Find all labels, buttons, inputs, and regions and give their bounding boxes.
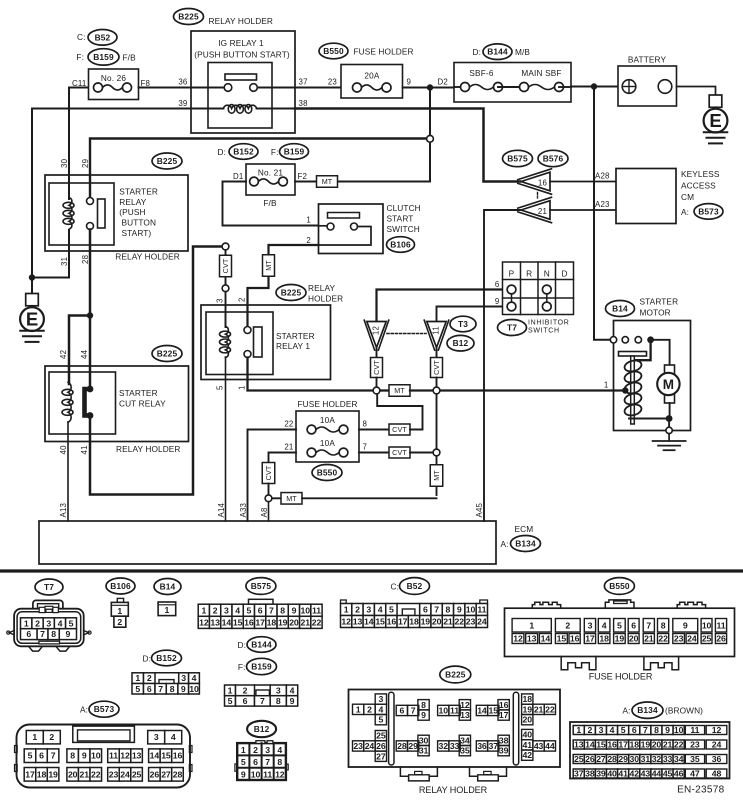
wire MT chain A8 to start wire [272, 394, 443, 504]
svg-text:6: 6 [243, 696, 248, 706]
svg-text:9: 9 [495, 297, 500, 306]
svg-text:33: 33 [450, 741, 460, 751]
svg-text:STARTER: STARTER [276, 331, 315, 341]
svg-text:CLUTCH: CLUTCH [387, 203, 421, 213]
svg-text:35: 35 [690, 754, 700, 764]
svg-text:18: 18 [630, 740, 640, 750]
svg-text:22: 22 [454, 617, 464, 627]
svg-text:1: 1 [529, 621, 534, 631]
svg-text:1: 1 [356, 704, 361, 714]
svg-text:42: 42 [523, 750, 533, 760]
svg-text:5: 5 [378, 715, 383, 725]
svg-text:A14: A14 [217, 502, 226, 517]
svg-text:24: 24 [477, 617, 487, 627]
svg-text:5: 5 [241, 757, 246, 767]
svg-text:9: 9 [181, 684, 186, 694]
svg-text:24: 24 [687, 634, 697, 644]
svg-text:2: 2 [49, 732, 54, 742]
svg-text:26: 26 [150, 769, 160, 779]
label FUSE HOLDER (10A fuses) [297, 399, 357, 409]
svg-text:34: 34 [674, 754, 684, 764]
svg-text:E: E [709, 110, 721, 131]
joint connector 21 [518, 197, 552, 222]
svg-text:5: 5 [69, 618, 74, 628]
svg-text:2: 2 [587, 725, 592, 735]
svg-text:19: 19 [278, 617, 288, 627]
svg-text:D:: D: [238, 640, 247, 650]
wire inhibitor 6 to joint 12 [377, 290, 508, 322]
connector B144/B159 pinout [225, 685, 298, 706]
connector B225 relay holder pinout [349, 690, 561, 781]
svg-text:B159: B159 [93, 52, 114, 62]
svg-text:A:: A: [80, 705, 88, 715]
svg-text:14: 14 [477, 706, 487, 716]
connector label B14 [606, 301, 635, 317]
svg-text:No. 26: No. 26 [101, 74, 127, 83]
connector label B144 [483, 44, 512, 60]
connector label B134 [632, 702, 663, 718]
connector label B225 [440, 666, 471, 683]
svg-text:20A: 20A [364, 72, 380, 81]
svg-text:35: 35 [460, 746, 470, 756]
svg-text:FUSE HOLDER: FUSE HOLDER [297, 399, 357, 409]
svg-text:9: 9 [407, 78, 412, 87]
svg-text:2: 2 [213, 605, 218, 615]
svg-text:29: 29 [81, 158, 90, 168]
svg-text:12: 12 [371, 326, 380, 335]
svg-text:11: 11 [263, 770, 272, 780]
svg-text:2: 2 [238, 297, 247, 302]
svg-text:10: 10 [300, 605, 310, 615]
label C: B52 (pinout) [391, 582, 400, 592]
svg-text:6: 6 [147, 684, 152, 694]
svg-text:B550: B550 [609, 581, 630, 591]
svg-text:FUSE HOLDER: FUSE HOLDER [589, 672, 653, 682]
svg-text:6: 6 [253, 757, 258, 767]
svg-text:KEYLESS: KEYLESS [681, 169, 720, 179]
svg-text:8: 8 [70, 751, 75, 761]
svg-text:22: 22 [284, 420, 293, 429]
label A: B134 (BROWN) [622, 705, 630, 715]
svg-text:B575: B575 [251, 581, 272, 591]
connector label B152 [229, 144, 258, 160]
svg-text:17: 17 [499, 710, 509, 720]
svg-text:23: 23 [674, 634, 684, 644]
wire 40 to ECM A13 [59, 422, 68, 521]
label RELAY HOLDER (starter relay 1) [308, 283, 343, 303]
connector label B225 [152, 153, 182, 169]
svg-text:B106: B106 [110, 581, 131, 591]
svg-text:9: 9 [241, 770, 246, 780]
svg-text:16: 16 [244, 617, 254, 627]
svg-text:2: 2 [355, 605, 360, 615]
svg-text:MOTOR: MOTOR [640, 308, 671, 318]
svg-text:8: 8 [654, 725, 659, 735]
separator line [0, 569, 743, 572]
wire 38 to joint 16 [295, 109, 520, 182]
svg-text:1: 1 [238, 385, 247, 390]
svg-text:D: D [561, 269, 567, 279]
svg-text:12: 12 [460, 700, 470, 710]
svg-text:31: 31 [60, 257, 69, 266]
label FUSE HOLDER (pinout) [589, 672, 653, 682]
svg-text:16: 16 [499, 700, 509, 710]
svg-text:10: 10 [466, 605, 476, 615]
svg-text:7: 7 [40, 629, 45, 639]
svg-text:B575: B575 [507, 154, 528, 164]
svg-text:20: 20 [629, 634, 639, 644]
connector label B52 [88, 30, 117, 46]
svg-text:10: 10 [674, 725, 684, 735]
svg-text:6: 6 [399, 706, 404, 716]
svg-text:3: 3 [181, 673, 186, 683]
svg-text:6: 6 [495, 280, 500, 289]
splice CVT below joint 11 [431, 348, 443, 394]
svg-text:19: 19 [615, 634, 625, 644]
svg-text:19: 19 [421, 617, 431, 627]
svg-text:A:: A: [681, 207, 689, 217]
svg-text:1: 1 [241, 745, 246, 755]
svg-text:MT: MT [394, 386, 405, 395]
svg-text:A33: A33 [239, 502, 248, 517]
svg-text:MT: MT [322, 177, 333, 186]
switch inhibitor switch T7 [503, 262, 574, 315]
label D: B144 M/B [473, 47, 482, 57]
svg-text:8: 8 [421, 700, 426, 710]
svg-text:CVT: CVT [392, 448, 407, 457]
svg-text:3: 3 [154, 732, 159, 742]
svg-text:10: 10 [702, 621, 712, 631]
svg-text:1: 1 [32, 732, 37, 742]
svg-text:1: 1 [24, 618, 29, 628]
svg-text:28: 28 [607, 754, 617, 764]
svg-text:5: 5 [228, 696, 233, 706]
svg-text:19: 19 [641, 740, 651, 750]
joint connector 12 [364, 320, 389, 350]
svg-text:1: 1 [228, 685, 233, 695]
svg-text:MAIN SBF: MAIN SBF [521, 69, 561, 78]
svg-text:23: 23 [690, 740, 700, 750]
svg-text:15: 15 [233, 617, 243, 627]
svg-text:22: 22 [674, 740, 684, 750]
dotted link 12-11 [387, 333, 426, 335]
svg-text:RELAY: RELAY [119, 197, 146, 207]
label INHIBITOR SWITCH [528, 320, 570, 335]
svg-text:1: 1 [135, 673, 140, 683]
connector B573 pinout [15, 725, 193, 788]
pin labels starter relay PBS [60, 158, 90, 266]
svg-text:EN-23578: EN-23578 [677, 785, 725, 796]
svg-text:17: 17 [585, 634, 595, 644]
connector label B225 [276, 285, 306, 301]
svg-text:7: 7 [158, 684, 163, 694]
svg-text:31: 31 [641, 754, 651, 764]
connector label B225 [152, 346, 182, 362]
wire battery to ground E [677, 87, 716, 96]
svg-text:D:: D: [473, 47, 482, 57]
svg-text:7: 7 [260, 696, 265, 706]
svg-text:B576: B576 [543, 154, 564, 164]
connector label B144 [247, 637, 276, 653]
svg-text:29: 29 [618, 754, 628, 764]
svg-text:41: 41 [80, 445, 89, 454]
connector label B152 [152, 650, 182, 666]
svg-text:B152: B152 [233, 147, 254, 157]
svg-text:RELAY HOLDER: RELAY HOLDER [209, 16, 274, 26]
svg-text:4: 4 [58, 618, 63, 628]
svg-text:47: 47 [690, 769, 700, 779]
svg-text:F/B: F/B [263, 198, 277, 208]
svg-text:14: 14 [364, 617, 374, 627]
svg-text:RELAY HOLDER: RELAY HOLDER [419, 785, 488, 795]
svg-text:20: 20 [432, 617, 442, 627]
svg-text:15: 15 [489, 706, 499, 716]
svg-text:43: 43 [534, 741, 544, 751]
svg-text:48: 48 [712, 769, 722, 779]
svg-text:5: 5 [135, 684, 140, 694]
svg-text:16: 16 [607, 740, 617, 750]
wire D1 to clutch start switch [223, 182, 319, 226]
node battery junction [591, 83, 597, 89]
svg-text:21: 21 [538, 207, 547, 216]
svg-text:38: 38 [299, 99, 309, 108]
svg-text:5: 5 [247, 605, 252, 615]
connector B152 pinout [132, 673, 199, 694]
wire D2 branch down to fuse No.21 feed [429, 88, 431, 182]
svg-text:1: 1 [344, 605, 349, 615]
label STARTER MOTOR [640, 297, 679, 318]
svg-text:3: 3 [588, 621, 593, 631]
svg-text:1: 1 [604, 381, 609, 390]
svg-text:CVT: CVT [264, 465, 273, 480]
splice CVT on pin3 feed [220, 243, 232, 327]
svg-text:5: 5 [621, 725, 626, 735]
svg-text:ACCESS: ACCESS [681, 181, 716, 191]
svg-text:9: 9 [82, 751, 87, 761]
battery [618, 55, 677, 107]
svg-text:6: 6 [258, 605, 263, 615]
svg-text:12: 12 [199, 617, 209, 627]
svg-text:11: 11 [690, 725, 699, 735]
label F: B159 F/B [76, 52, 84, 62]
svg-text:3: 3 [366, 605, 371, 615]
svg-text:No. 21: No. 21 [258, 169, 284, 178]
svg-text:21: 21 [79, 769, 89, 779]
joint connector 16 [518, 169, 552, 194]
svg-text:SWITCH: SWITCH [387, 224, 420, 234]
svg-text:20: 20 [523, 715, 533, 725]
svg-text:14: 14 [222, 617, 232, 627]
svg-text:CVT: CVT [392, 425, 407, 434]
svg-text:D2: D2 [438, 78, 449, 87]
svg-text:26: 26 [585, 754, 595, 764]
svg-text:CVT: CVT [372, 360, 381, 375]
svg-text:23: 23 [466, 617, 476, 627]
wire A28 [550, 172, 616, 182]
svg-text:14: 14 [541, 634, 551, 644]
svg-text:2: 2 [253, 745, 258, 755]
svg-text:ECM: ECM [515, 524, 534, 534]
wire 41 to starter relay 1 pin 3 [90, 247, 222, 495]
svg-text:2: 2 [243, 685, 248, 695]
wire 39 to ground node [32, 109, 191, 294]
svg-text:4: 4 [602, 621, 607, 631]
svg-text:CUT RELAY: CUT RELAY [119, 398, 166, 408]
svg-text:3: 3 [216, 298, 225, 303]
label RELAY HOLDER (pinout) [419, 785, 488, 795]
connector label B14 [154, 579, 181, 595]
svg-text:25: 25 [574, 754, 584, 764]
svg-text:E: E [26, 309, 38, 330]
svg-text:14: 14 [150, 751, 160, 761]
svg-text:18: 18 [599, 634, 609, 644]
label D: B152 [218, 147, 227, 157]
svg-text:22: 22 [91, 769, 101, 779]
svg-text:3: 3 [46, 618, 51, 628]
relay IG RELAY 1 [191, 31, 295, 133]
connector label B573 [694, 204, 723, 220]
svg-text:6: 6 [39, 751, 44, 761]
svg-text:D:: D: [218, 147, 227, 157]
wire 36 [139, 78, 192, 88]
node C11 label [72, 79, 87, 88]
fuses 10A (B550) [296, 411, 359, 462]
svg-text:B106: B106 [390, 240, 411, 250]
svg-text:34: 34 [460, 735, 470, 745]
svg-text:28: 28 [397, 741, 407, 751]
svg-text:F:: F: [238, 662, 246, 672]
label EN-23578 [677, 785, 725, 796]
svg-text:19: 19 [48, 769, 58, 779]
connector label B52 [400, 578, 430, 595]
svg-text:B159: B159 [251, 662, 272, 672]
connector B52 pinout [341, 600, 488, 628]
wire pin 1 to starter motor (MT splices) [248, 358, 626, 397]
svg-text:INHIBITOR: INHIBITOR [528, 320, 570, 327]
svg-text:8: 8 [661, 621, 666, 631]
svg-text:18: 18 [267, 617, 277, 627]
wire to node D2 [403, 87, 455, 89]
svg-text:IG RELAY 1: IG RELAY 1 [218, 38, 264, 48]
svg-text:11: 11 [450, 706, 459, 716]
svg-text:28: 28 [81, 254, 90, 264]
svg-text:B144: B144 [487, 47, 508, 57]
svg-text:4: 4 [378, 605, 383, 615]
svg-text:7: 7 [363, 443, 368, 452]
svg-text:8: 8 [51, 629, 56, 639]
svg-text:43: 43 [641, 769, 651, 779]
svg-text:18: 18 [523, 694, 533, 704]
node D2 [427, 78, 448, 91]
svg-text:16: 16 [387, 617, 397, 627]
svg-text:B225: B225 [157, 156, 178, 166]
connector label B159 [88, 49, 119, 65]
label F: B159 [271, 147, 279, 157]
svg-text:37: 37 [299, 78, 308, 87]
svg-text:CVT: CVT [221, 258, 230, 273]
svg-text:STARTER: STARTER [119, 388, 158, 398]
wire M/B to battery [571, 86, 618, 88]
svg-text:B159: B159 [284, 147, 305, 157]
wire clutch pin 2 to starter relay 1 via MT [248, 245, 319, 327]
svg-text:CVT: CVT [432, 360, 441, 375]
svg-text:8: 8 [276, 696, 281, 706]
svg-text:3: 3 [265, 745, 270, 755]
svg-text:15: 15 [161, 751, 171, 761]
svg-text:36: 36 [477, 741, 487, 751]
svg-text:A23: A23 [595, 200, 610, 209]
connector B134 pinout [570, 722, 730, 779]
svg-text:39: 39 [596, 769, 606, 779]
fuses SBF-6 and MAIN SBF in M/B [454, 63, 571, 103]
svg-text:(PUSH: (PUSH [119, 207, 145, 217]
svg-text:START: START [387, 213, 414, 223]
svg-text:1: 1 [117, 606, 122, 616]
svg-text:A:: A: [622, 705, 630, 715]
svg-text:T7: T7 [44, 582, 54, 592]
svg-text:12: 12 [712, 725, 722, 735]
connector label B106 [106, 578, 135, 594]
svg-text:D:: D: [143, 654, 152, 664]
svg-text:16: 16 [570, 634, 580, 644]
svg-text:9: 9 [665, 725, 670, 735]
svg-text:MT: MT [286, 494, 297, 503]
svg-text:13: 13 [574, 740, 584, 750]
svg-text:9: 9 [457, 605, 462, 615]
svg-text:37: 37 [489, 741, 499, 751]
svg-text:4: 4 [290, 685, 295, 695]
connector T7 pinout [7, 600, 91, 651]
relay STARTER RELAY (PUSH BUTTON START) [45, 175, 188, 251]
svg-text:4: 4 [171, 732, 176, 742]
connector label B576 [538, 150, 568, 166]
svg-text:12: 12 [513, 634, 523, 644]
svg-text:14: 14 [585, 740, 595, 750]
svg-text:20: 20 [289, 617, 299, 627]
svg-text:(PUSH BUTTON START): (PUSH BUTTON START) [194, 50, 290, 60]
svg-text:25: 25 [132, 769, 142, 779]
connector label B225 [174, 9, 204, 25]
svg-text:15: 15 [375, 617, 385, 627]
svg-text:32: 32 [652, 754, 662, 764]
connector label T7 [498, 320, 527, 336]
svg-text:C:: C: [391, 582, 400, 592]
ground E (left) [20, 294, 44, 342]
svg-text:HOLDER: HOLDER [308, 293, 343, 303]
svg-text:D1: D1 [233, 172, 244, 181]
svg-text:26: 26 [716, 634, 726, 644]
svg-text:44: 44 [652, 769, 662, 779]
svg-text:C:: C: [77, 32, 86, 42]
svg-text:6: 6 [631, 621, 636, 631]
svg-text:9: 9 [66, 629, 71, 639]
fuse No. 21 (F/B) [246, 164, 295, 208]
wire 7 via CVT [359, 443, 440, 459]
dotted link 16-21 [537, 193, 539, 200]
connector B106 pinout [111, 598, 128, 627]
wire A23 [550, 200, 616, 210]
svg-text:8: 8 [446, 605, 451, 615]
svg-text:29: 29 [408, 741, 418, 751]
svg-text:A45: A45 [475, 502, 484, 517]
svg-text:46: 46 [674, 769, 684, 779]
svg-text:9: 9 [683, 621, 688, 631]
svg-text:2: 2 [367, 704, 372, 714]
svg-text:30: 30 [630, 754, 640, 764]
svg-text:39: 39 [499, 746, 509, 756]
svg-text:44: 44 [545, 741, 555, 751]
switch clutch start switch B106 [319, 203, 421, 254]
